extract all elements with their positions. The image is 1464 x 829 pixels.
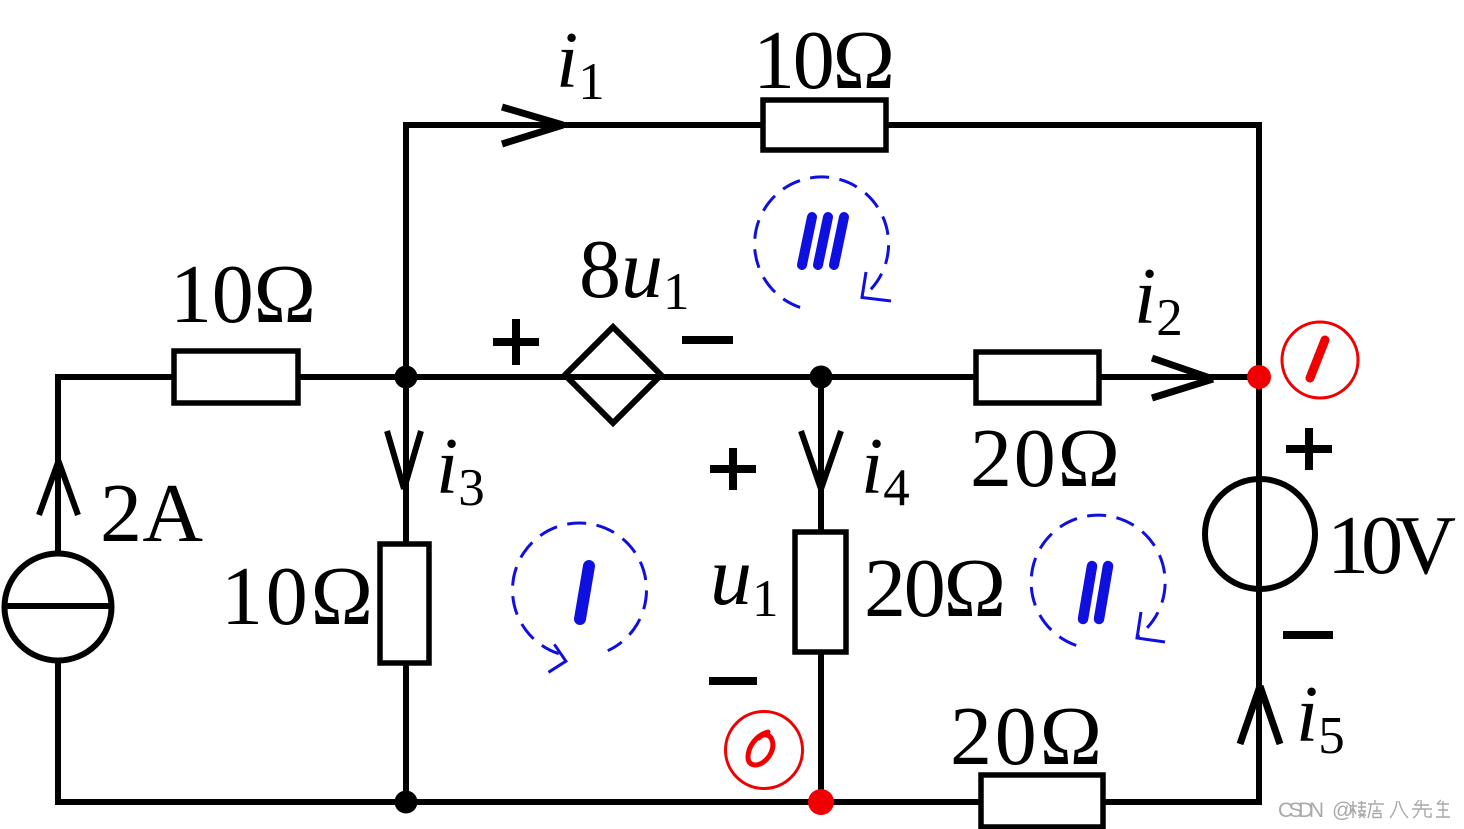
resistor 10ohm vertical i3 branch — [380, 544, 429, 663]
resistor 10ohm top horizontal — [763, 100, 886, 150]
resistor 20ohm horizontal i2 branch — [976, 352, 1099, 403]
mesh I dashed circle — [512, 523, 646, 672]
svg-text:10Ω: 10Ω — [170, 248, 316, 341]
ba — [1390, 801, 1408, 818]
2A source arrow — [39, 461, 78, 515]
mesh II dashed circle — [1031, 515, 1165, 645]
watermark CSDN — [1278, 799, 1353, 822]
node 0 red circle label — [726, 712, 803, 789]
arrow i5 — [1240, 686, 1280, 744]
wire bottom horizontal — [55, 799, 1262, 805]
svg-text:2A: 2A — [100, 467, 203, 560]
svg-text:20Ω: 20Ω — [864, 542, 1006, 635]
sheng — [1436, 800, 1450, 817]
arrow i3 — [387, 431, 421, 489]
svg-text:@: @ — [1332, 799, 1353, 822]
mesh III numerals — [802, 217, 844, 265]
lou — [1350, 801, 1366, 818]
dian — [1368, 800, 1384, 818]
plus u1 — [710, 448, 756, 490]
resistor 20ohm bottom horizontal — [981, 775, 1103, 827]
dependent source 8u1 diamond — [565, 327, 661, 423]
resistor 10ohm left horizontal — [174, 351, 298, 403]
wire left rail — [55, 374, 61, 805]
wire top horizontal — [403, 122, 1262, 128]
wire middle horizontal — [58, 374, 1259, 380]
minus dep source — [682, 336, 733, 344]
mesh III dashed circle — [755, 177, 891, 307]
plus dep source — [493, 319, 539, 365]
wire mid rail — [403, 122, 409, 802]
minus 10V — [1283, 631, 1333, 639]
svg-text:20Ω: 20Ω — [970, 412, 1120, 505]
svg-text:10Ω: 10Ω — [753, 14, 895, 107]
minus u1 — [709, 677, 757, 685]
watermark CJK glyphs — [1350, 800, 1450, 818]
xian — [1412, 800, 1432, 818]
svg-text:20Ω: 20Ω — [950, 690, 1102, 783]
wire right rail — [1256, 122, 1262, 805]
resistor 20ohm vertical u1 branch — [795, 532, 846, 652]
node 1 red circle label — [1282, 322, 1358, 398]
arrow i2 — [1152, 358, 1213, 398]
svg-text:CSDN: CSDN — [1278, 799, 1324, 822]
svg-text:10V: 10V — [1327, 499, 1456, 592]
plus 10V — [1286, 428, 1332, 470]
voltage source 10V circle — [1205, 479, 1315, 589]
mesh I numeral — [580, 566, 589, 619]
wire u1 branch rail — [818, 377, 824, 802]
current source 2A circle — [5, 554, 112, 661]
node junction dot B — [810, 366, 833, 389]
node junction dot A — [395, 366, 418, 389]
mesh II numerals — [1083, 566, 1108, 619]
node 1 red dot — [1247, 365, 1271, 389]
arrow i1 — [502, 107, 563, 144]
node 0 red dot — [808, 789, 834, 815]
node junction dot C — [395, 791, 418, 814]
svg-text:10Ω: 10Ω — [221, 550, 373, 643]
arrow i4 — [801, 431, 841, 489]
